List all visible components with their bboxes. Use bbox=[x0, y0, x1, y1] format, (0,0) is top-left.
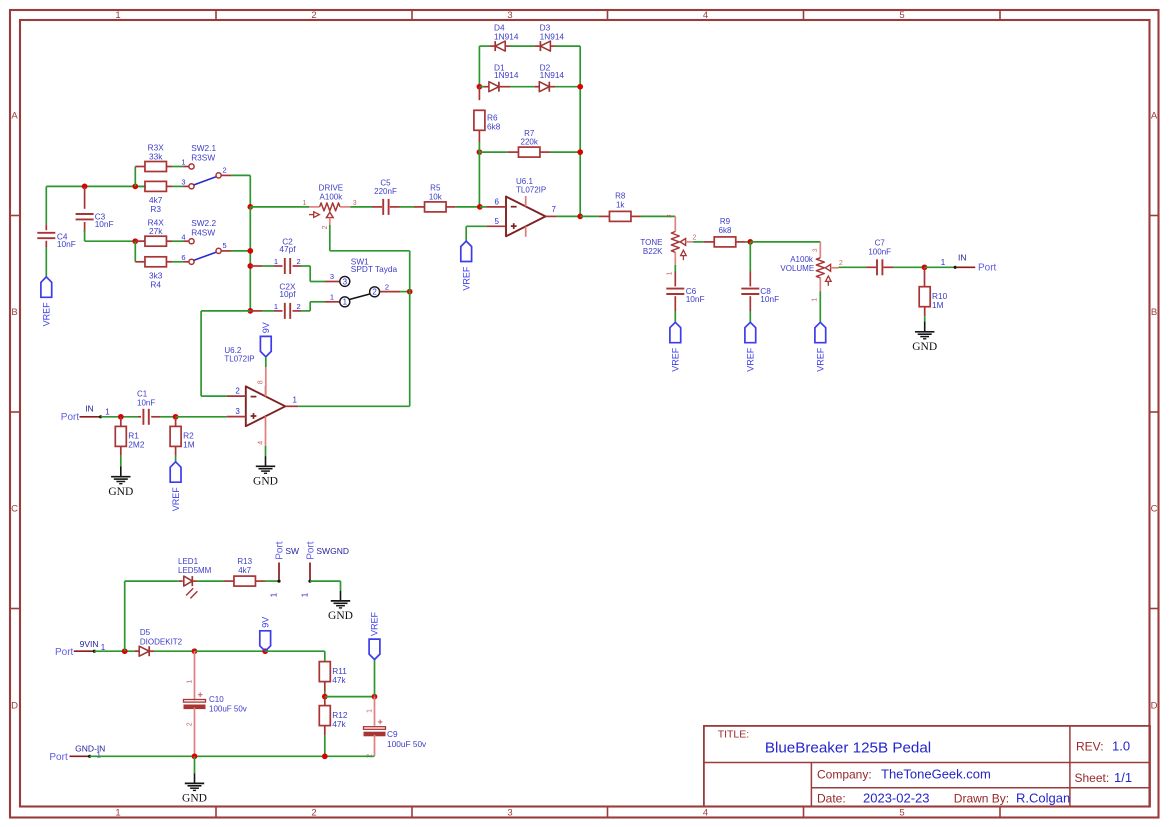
SW1 pin2 contact circle bbox=[370, 287, 380, 297]
svg-text:BlueBreaker 125B Pedal: BlueBreaker 125B Pedal bbox=[765, 740, 931, 757]
svg-text:C: C bbox=[11, 504, 18, 515]
junction R7 right bbox=[577, 149, 583, 155]
svg-text:5: 5 bbox=[899, 807, 904, 818]
svg-text:1M: 1M bbox=[183, 440, 195, 450]
svg-text:A100k: A100k bbox=[320, 192, 344, 201]
svg-text:1: 1 bbox=[343, 298, 348, 307]
wire DRIVE wiper down bbox=[329, 225, 331, 251]
wire 9VIN to D5 bbox=[94, 650, 140, 652]
svg-text:C5: C5 bbox=[380, 178, 391, 187]
junction D1 left bbox=[477, 84, 483, 90]
wire pin2 feedback loop bbox=[201, 395, 227, 397]
svg-text:1N914: 1N914 bbox=[494, 70, 519, 80]
svg-text:A: A bbox=[11, 110, 18, 121]
junction pin6 node bbox=[477, 204, 483, 210]
wire C5 to R5 bbox=[400, 206, 415, 208]
svg-text:1: 1 bbox=[115, 10, 120, 21]
wire row to C5 bbox=[351, 206, 373, 208]
svg-text:1: 1 bbox=[97, 751, 102, 760]
svg-text:27k: 27k bbox=[149, 226, 163, 236]
wire main row segment bbox=[250, 206, 309, 208]
wire LED to R13 bbox=[197, 580, 224, 582]
capacitor C3 bbox=[84, 186, 86, 208]
svg-text:1: 1 bbox=[812, 298, 819, 302]
svg-text:3: 3 bbox=[235, 407, 240, 416]
svg-text:47k: 47k bbox=[332, 675, 346, 685]
resistor R9 6k8 bbox=[704, 241, 715, 243]
svg-text:VREF: VREF bbox=[746, 347, 756, 372]
power symbol VREF below R2 bbox=[170, 462, 181, 482]
svg-text:VREF: VREF bbox=[171, 487, 181, 512]
junction R1 top bbox=[118, 414, 124, 420]
svg-text:LED1: LED1 bbox=[178, 557, 199, 566]
svg-text:4: 4 bbox=[181, 232, 185, 241]
svg-text:4k7: 4k7 bbox=[238, 566, 251, 575]
wire diode loop right vertical bbox=[579, 46, 581, 216]
resistor R8 1k bbox=[599, 215, 610, 217]
svg-text:2: 2 bbox=[311, 807, 316, 818]
resistor R2 1M vertical bbox=[175, 417, 177, 427]
svg-text:3: 3 bbox=[181, 178, 185, 187]
svg-text:5: 5 bbox=[223, 241, 227, 250]
DRIVE adjust arrow bbox=[309, 214, 314, 216]
svg-text:A100k: A100k bbox=[790, 255, 814, 264]
power symbol VREF below VOLUME bbox=[815, 322, 826, 342]
SW2.1 lever bbox=[194, 177, 217, 185]
svg-text:U6.2: U6.2 bbox=[224, 346, 241, 355]
port SW (vertical) bbox=[277, 580, 280, 583]
svg-text:1: 1 bbox=[105, 408, 110, 417]
svg-text:D: D bbox=[1151, 700, 1158, 711]
wire VREF to pin5 bbox=[466, 225, 486, 227]
wire output row to R8 bbox=[580, 215, 599, 217]
svg-text:1: 1 bbox=[366, 709, 373, 713]
wire U6.2 output to feedback vertical bbox=[298, 405, 410, 407]
svg-text:10pf: 10pf bbox=[279, 289, 296, 299]
svg-text:47pf: 47pf bbox=[279, 244, 296, 254]
diode D3 1N914 bbox=[535, 45, 540, 47]
svg-text:1: 1 bbox=[303, 200, 307, 207]
U6.2 pin1 output stub bbox=[285, 405, 298, 407]
U6.1 pin6 stub bbox=[486, 206, 506, 208]
svg-text:2: 2 bbox=[297, 302, 301, 311]
svg-text:100uF 50v: 100uF 50v bbox=[387, 739, 427, 749]
svg-text:VREF: VREF bbox=[671, 347, 681, 372]
junction C2 row bbox=[247, 263, 253, 269]
power symbol VREF power rail bbox=[369, 639, 380, 659]
svg-text:B: B bbox=[11, 307, 17, 318]
wire main row to R3 bbox=[135, 185, 145, 187]
svg-text:2: 2 bbox=[297, 257, 301, 266]
wire R7 row left bbox=[479, 151, 507, 153]
diode D4 1N914 bbox=[479, 45, 489, 47]
wire SW1 pin2 to junction bbox=[380, 291, 401, 293]
svg-text:Company:: Company: bbox=[817, 768, 872, 782]
wire C2X pin2 corner to SW1 pin1 bbox=[309, 302, 311, 311]
title block dividers bbox=[704, 762, 1150, 764]
svg-text:1: 1 bbox=[667, 271, 674, 275]
capacitor C9 100uF 50v electrolytic bbox=[374, 697, 376, 726]
svg-text:7: 7 bbox=[552, 205, 557, 214]
junction SW1 feedback bbox=[407, 289, 413, 295]
junction SW2.2 row bbox=[247, 248, 253, 254]
svg-text:R8: R8 bbox=[615, 192, 626, 201]
wire R5 to pin6 junction bbox=[456, 206, 480, 208]
svg-text:2: 2 bbox=[372, 288, 377, 297]
junction R3 vertical bbox=[132, 184, 138, 190]
SW2.1 pin3 circle bbox=[189, 184, 194, 189]
wire LED row left bbox=[125, 580, 179, 582]
svg-text:1M: 1M bbox=[932, 300, 944, 310]
capacitor C1 10nF bbox=[138, 416, 141, 418]
svg-text:2: 2 bbox=[311, 10, 316, 21]
svg-text:220k: 220k bbox=[521, 138, 539, 147]
junction R6 bottom / R7 left bbox=[477, 149, 483, 155]
svg-text:1: 1 bbox=[270, 592, 279, 597]
svg-text:TONE: TONE bbox=[640, 238, 662, 247]
power symbol 9V above U6.2 bbox=[260, 336, 271, 356]
resistor R11 47k vertical bbox=[319, 662, 330, 682]
svg-text:1/1: 1/1 bbox=[1114, 770, 1132, 785]
junction R11/R12 bbox=[322, 694, 328, 700]
svg-text:VOLUME: VOLUME bbox=[780, 264, 814, 273]
svg-text:R13: R13 bbox=[237, 557, 252, 566]
title block box bbox=[704, 726, 1150, 807]
svg-text:1: 1 bbox=[186, 680, 193, 684]
svg-text:1: 1 bbox=[330, 292, 334, 301]
svg-text:3: 3 bbox=[343, 277, 348, 286]
resistor R4 3k3 bbox=[135, 261, 145, 263]
svg-text:R3: R3 bbox=[150, 204, 161, 214]
svg-text:1N914: 1N914 bbox=[494, 31, 519, 41]
junction R2 top bbox=[173, 414, 179, 420]
svg-text:6k8: 6k8 bbox=[719, 226, 732, 235]
wire R9 row to VOLUME bbox=[750, 241, 820, 243]
junction R12 bottom bbox=[322, 753, 328, 759]
svg-text:TheToneGeek.com: TheToneGeek.com bbox=[881, 767, 991, 782]
wire output to junction bbox=[556, 215, 580, 217]
wire feedback down to U6.2 output bbox=[409, 292, 411, 407]
svg-text:SW2.1: SW2.1 bbox=[191, 143, 216, 153]
wire TONE wiper to R9 bbox=[693, 241, 704, 243]
wire C4 corner vertical bbox=[45, 186, 47, 224]
svg-text:220nF: 220nF bbox=[374, 187, 397, 196]
svg-text:Port: Port bbox=[61, 412, 80, 423]
wire wiper feedback to SW1 bbox=[330, 250, 410, 252]
svg-text:R9: R9 bbox=[720, 217, 731, 226]
svg-text:GND: GND bbox=[253, 475, 278, 487]
svg-text:2: 2 bbox=[385, 282, 389, 291]
svg-text:C1: C1 bbox=[137, 389, 148, 398]
wire R3X-R3 vertical link bbox=[134, 167, 136, 187]
ground symbol below R1 bbox=[120, 467, 122, 477]
svg-text:TL072IP: TL072IP bbox=[516, 186, 546, 195]
svg-text:1.0: 1.0 bbox=[1112, 739, 1130, 754]
wire to 9V junction bbox=[195, 650, 266, 652]
U6.1 pin7 output stub bbox=[546, 215, 557, 217]
capacitor C4 bbox=[45, 224, 47, 230]
VOLUME wiper arrow bbox=[825, 264, 830, 271]
svg-text:GND: GND bbox=[912, 341, 937, 353]
junction U6.1 output bbox=[577, 214, 583, 220]
svg-text:SPDT Tayda: SPDT Tayda bbox=[351, 264, 398, 274]
wire left vertical R7 to pin6 bbox=[478, 152, 480, 207]
svg-text:R5: R5 bbox=[430, 184, 441, 193]
diode D2 1N914 bbox=[534, 86, 539, 88]
svg-text:2: 2 bbox=[223, 166, 227, 175]
svg-text:10k: 10k bbox=[429, 192, 443, 201]
wire 9V junction to R11 corner bbox=[265, 650, 325, 652]
power symbol VREF below C6 bbox=[670, 322, 681, 342]
SW2.2 pin4 circle bbox=[189, 239, 194, 244]
svg-text:R4SW: R4SW bbox=[191, 227, 215, 237]
svg-text:3: 3 bbox=[330, 272, 334, 281]
ground symbol below R10 bbox=[924, 322, 926, 332]
wire C7 to junction bbox=[893, 266, 925, 268]
svg-text:LED5MM: LED5MM bbox=[178, 566, 212, 575]
SW2.1 pin2 circle bbox=[216, 173, 221, 178]
power symbol VREF below C8 bbox=[745, 322, 756, 342]
svg-text:6: 6 bbox=[181, 253, 185, 262]
diode D1 1N914 bbox=[479, 86, 484, 88]
wire junction to IN port pin bbox=[925, 266, 956, 268]
svg-text:Port: Port bbox=[49, 752, 68, 763]
SW2.1 pin1 circle bbox=[189, 164, 194, 169]
svg-text:DIODEKIT2: DIODEKIT2 bbox=[140, 637, 183, 646]
svg-text:9V: 9V bbox=[260, 617, 270, 628]
power symbol VREF below C4 bbox=[41, 277, 52, 297]
svg-text:3: 3 bbox=[507, 807, 512, 818]
svg-text:C9: C9 bbox=[387, 729, 398, 739]
wire C10 to ground bbox=[194, 756, 196, 773]
svg-text:5: 5 bbox=[495, 217, 500, 226]
junction main row corner bbox=[247, 204, 253, 210]
vertical node wire bbox=[249, 207, 251, 311]
VOLUME adjust arrow bbox=[827, 281, 829, 286]
svg-text:IN: IN bbox=[958, 252, 967, 262]
svg-text:6k8: 6k8 bbox=[487, 121, 501, 131]
svg-text:10nF: 10nF bbox=[760, 294, 779, 304]
svg-text:VREF: VREF bbox=[816, 347, 826, 372]
wire C4 row horizontal bbox=[46, 185, 146, 187]
svg-text:2M2: 2M2 bbox=[128, 440, 145, 450]
svg-text:2: 2 bbox=[839, 260, 843, 267]
wire port to C1 bbox=[101, 416, 138, 418]
wire to U6.2 pin3 bbox=[176, 416, 227, 418]
wire diode loop left vertical bbox=[478, 46, 480, 87]
svg-text:1: 1 bbox=[115, 807, 120, 818]
svg-text:1: 1 bbox=[274, 302, 278, 311]
svg-text:TL072IP: TL072IP bbox=[224, 355, 254, 364]
svg-text:IN: IN bbox=[85, 404, 94, 414]
resistor R5 10k bbox=[414, 206, 425, 208]
wire C2 pin2 corner to SW1 pin3 bbox=[309, 266, 311, 282]
wire VOLUME wiper to C7 bbox=[839, 266, 867, 268]
svg-text:VREF: VREF bbox=[370, 611, 380, 636]
svg-text:GND: GND bbox=[108, 486, 133, 498]
svg-text:Port: Port bbox=[978, 263, 997, 274]
capacitor C8 10nF bbox=[749, 272, 751, 287]
wire R6 to junction bbox=[478, 142, 480, 152]
svg-text:VREF: VREF bbox=[461, 266, 471, 291]
junction R4X row bbox=[132, 238, 138, 244]
svg-text:U6.1: U6.1 bbox=[516, 177, 533, 186]
svg-text:D5: D5 bbox=[140, 628, 151, 637]
SW1 pin3 contact circle bbox=[340, 276, 350, 286]
wire R9 junction down to C8 bbox=[749, 242, 751, 272]
DRIVE wiper arrow bbox=[326, 212, 333, 217]
LED emission arrows bbox=[186, 588, 193, 595]
svg-text:100nF: 100nF bbox=[868, 247, 891, 256]
svg-text:1N914: 1N914 bbox=[540, 31, 565, 41]
wire C3 bottom corner to R4X row bbox=[84, 230, 86, 241]
SW2.2 pin5 circle bbox=[216, 248, 221, 253]
svg-text:3: 3 bbox=[812, 248, 819, 252]
wire C1 to R2 junction bbox=[160, 416, 176, 418]
wire SWGND to ground bbox=[310, 580, 341, 582]
U6.2 pin2 stub bbox=[227, 395, 246, 397]
svg-text:47k: 47k bbox=[332, 719, 346, 729]
svg-text:100uF 50v: 100uF 50v bbox=[209, 704, 247, 713]
svg-text:Port: Port bbox=[305, 541, 316, 560]
svg-text:Sheet:: Sheet: bbox=[1075, 771, 1110, 785]
junction VREF/C9 bbox=[372, 694, 378, 700]
svg-text:9V: 9V bbox=[261, 322, 271, 333]
svg-text:1: 1 bbox=[293, 395, 298, 404]
svg-text:D: D bbox=[11, 700, 18, 711]
ground symbol below U6.2 bbox=[265, 456, 267, 466]
capacitor C5 220nF bbox=[372, 206, 382, 208]
junction 9V bbox=[262, 648, 268, 654]
resistor R13 4k7 bbox=[223, 580, 234, 582]
svg-text:5: 5 bbox=[899, 10, 904, 21]
junction C3 top bbox=[82, 184, 88, 190]
TONE adjust arrow bbox=[682, 256, 684, 261]
svg-text:GND: GND bbox=[182, 793, 207, 805]
ground symbol below C10 bbox=[194, 773, 196, 783]
junction R9 right bbox=[745, 241, 750, 243]
svg-text:R4: R4 bbox=[150, 280, 161, 290]
svg-text:VREF: VREF bbox=[42, 302, 52, 327]
svg-text:4: 4 bbox=[258, 441, 265, 445]
svg-text:Drawn By:: Drawn By: bbox=[954, 792, 1009, 806]
svg-text:2: 2 bbox=[322, 225, 329, 229]
U6.1 pin5 stub bbox=[486, 225, 506, 227]
svg-text:3: 3 bbox=[353, 200, 357, 207]
port SWGND (vertical) bbox=[308, 580, 311, 583]
capacitor C10 100uF 50v electrolytic bbox=[194, 651, 196, 700]
svg-text:R3SW: R3SW bbox=[191, 153, 215, 163]
junction C7/R10 bbox=[922, 264, 928, 270]
wire R13 to SW port bbox=[265, 580, 279, 582]
svg-text:B: B bbox=[1151, 307, 1157, 318]
svg-text:1: 1 bbox=[274, 257, 278, 266]
wire R7 row right bbox=[550, 151, 580, 153]
wire GND-IN row bbox=[90, 755, 375, 757]
wire D5 to C10 junction bbox=[154, 650, 195, 652]
svg-text:C: C bbox=[1151, 504, 1158, 515]
svg-text:4: 4 bbox=[703, 10, 708, 21]
svg-text:6: 6 bbox=[495, 197, 500, 206]
junction LED branch bbox=[122, 648, 128, 654]
svg-text:10nF: 10nF bbox=[57, 239, 76, 249]
svg-text:Port: Port bbox=[55, 647, 74, 658]
wire VOLUME bottom to VREF bbox=[819, 291, 821, 322]
junction C2X row bbox=[247, 308, 253, 314]
wire R11 junction to VREF junction bbox=[325, 696, 375, 698]
svg-text:4: 4 bbox=[703, 807, 708, 818]
U6.2 pin3 stub bbox=[227, 416, 246, 418]
svg-text:R7: R7 bbox=[524, 129, 535, 138]
port IN (output jack) bbox=[954, 266, 957, 269]
svg-text:R.Colgan: R.Colgan bbox=[1016, 791, 1070, 806]
svg-text:3: 3 bbox=[507, 10, 512, 21]
svg-text:1: 1 bbox=[181, 158, 185, 167]
resistor R3X 33k bbox=[135, 166, 145, 168]
TONE wiper arrow bbox=[680, 239, 685, 246]
svg-text:Date:: Date: bbox=[817, 792, 846, 806]
junction D2 right bbox=[577, 84, 583, 90]
svg-text:2: 2 bbox=[693, 235, 697, 242]
svg-text:1: 1 bbox=[941, 258, 946, 267]
SW1 pin1 contact circle bbox=[340, 297, 350, 307]
wire SW2.2 pin5 to vertical bbox=[221, 250, 231, 252]
svg-text:B22K: B22K bbox=[643, 247, 663, 256]
svg-text:10nF: 10nF bbox=[137, 399, 155, 408]
svg-text:2: 2 bbox=[186, 722, 193, 726]
wire SW2.1 pin2 to corner bbox=[221, 174, 231, 176]
svg-text:33k: 33k bbox=[149, 151, 163, 161]
power symbol 9V power rail bbox=[260, 631, 271, 651]
svg-text:10nF: 10nF bbox=[95, 219, 114, 229]
resistor R4X 27k bbox=[135, 240, 145, 242]
resistor R1 2M2 vertical bbox=[120, 417, 122, 427]
power symbol VREF at U6.1 pin5 bbox=[461, 241, 472, 261]
svg-text:10nF: 10nF bbox=[686, 294, 705, 304]
SW2.2 lever bbox=[194, 252, 217, 260]
wire LED branch vertical bbox=[124, 581, 126, 651]
svg-text:Port: Port bbox=[274, 541, 285, 560]
svg-text:2023-02-23: 2023-02-23 bbox=[863, 791, 930, 806]
junction C10 bottom bbox=[192, 753, 198, 759]
svg-text:1N914: 1N914 bbox=[540, 70, 565, 80]
resistor R10 1M vertical bbox=[924, 267, 926, 287]
svg-text:1: 1 bbox=[301, 592, 310, 597]
svg-text:1k: 1k bbox=[616, 200, 625, 209]
wire R4X-R4 vertical link bbox=[134, 241, 136, 262]
svg-text:8: 8 bbox=[258, 380, 265, 384]
wire VREF lead bbox=[374, 660, 376, 697]
svg-text:SW: SW bbox=[285, 546, 299, 556]
capacitor C2X 10pf bbox=[250, 310, 262, 312]
svg-text:3: 3 bbox=[666, 214, 673, 218]
wire U6.2 pin4 to ground bbox=[265, 427, 267, 446]
resistor R3 4k7 bbox=[145, 181, 167, 191]
resistor R6 6k8 vertical bbox=[478, 87, 480, 101]
capacitor C7 100nF bbox=[867, 266, 877, 268]
svg-text:SWGND: SWGND bbox=[316, 546, 349, 556]
capacitor C6 10nF bbox=[674, 265, 676, 272]
svg-text:2: 2 bbox=[235, 387, 240, 396]
svg-text:A: A bbox=[1151, 110, 1158, 121]
svg-text:SW2.2: SW2.2 bbox=[191, 218, 216, 228]
SW2.2 pin6 circle bbox=[189, 259, 194, 264]
junction C10 top bbox=[192, 648, 198, 654]
SW1 lever bbox=[349, 294, 370, 300]
resistor R12 47k vertical bbox=[324, 697, 326, 706]
svg-text:9VIN: 9VIN bbox=[80, 639, 99, 649]
svg-text:REV:: REV: bbox=[1076, 740, 1104, 754]
